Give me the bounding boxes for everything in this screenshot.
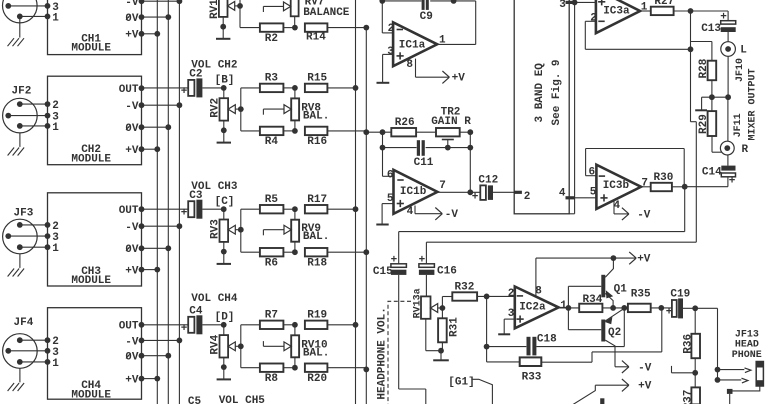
svg-text:IC1a: IC1a [399, 39, 426, 51]
svg-text:5: 5 [590, 187, 597, 199]
svg-text:R: R [742, 144, 749, 156]
svg-text:R5: R5 [265, 194, 279, 206]
svg-text:BAL.: BAL. [303, 231, 329, 243]
svg-text:OUT: OUT [119, 321, 139, 333]
svg-text:R3: R3 [265, 73, 279, 85]
svg-text:-V: -V [125, 336, 139, 348]
svg-text:OUT: OUT [119, 84, 139, 96]
svg-text:+V: +V [125, 30, 139, 42]
svg-text:R6: R6 [265, 257, 278, 269]
svg-text:R33: R33 [522, 372, 542, 384]
svg-text:+: + [720, 11, 727, 23]
svg-text:3: 3 [559, 0, 566, 11]
svg-text:+: + [181, 323, 188, 335]
svg-text:BAL.: BAL. [303, 111, 329, 123]
svg-text:MODULE: MODULE [71, 389, 111, 401]
svg-text:-V: -V [445, 209, 459, 221]
svg-text:1: 1 [52, 12, 59, 24]
svg-text:MIXER OUTPUT: MIXER OUTPUT [747, 68, 758, 140]
svg-text:IC3b: IC3b [603, 180, 630, 192]
svg-text:MODULE: MODULE [71, 153, 111, 165]
svg-text:-V: -V [637, 209, 651, 221]
svg-text:JF4: JF4 [14, 317, 34, 329]
svg-text:-V: -V [125, 101, 139, 113]
svg-text:IC1b: IC1b [400, 186, 427, 198]
svg-text:BALANCE: BALANCE [303, 7, 350, 19]
svg-text:R4: R4 [265, 136, 279, 148]
svg-text:R35: R35 [631, 288, 651, 300]
svg-text:RV3: RV3 [210, 219, 222, 239]
svg-text:-V: -V [638, 362, 652, 374]
svg-text:6: 6 [387, 169, 394, 181]
svg-text:3: 3 [508, 308, 515, 320]
svg-text:JF10: JF10 [735, 58, 746, 82]
svg-text:C9: C9 [420, 11, 433, 23]
svg-text:MODULE: MODULE [71, 275, 111, 287]
svg-text:HEADPHONE VOL.: HEADPHONE VOL. [377, 307, 389, 399]
svg-text:R37: R37 [682, 390, 694, 404]
svg-text:[C]: [C] [215, 196, 235, 208]
svg-text:R18: R18 [307, 257, 327, 269]
svg-text:R8: R8 [265, 373, 279, 385]
svg-text:1: 1 [52, 243, 59, 255]
svg-text:C13: C13 [701, 23, 721, 35]
svg-text:JF3: JF3 [14, 207, 34, 219]
svg-text:+V: +V [125, 266, 139, 278]
svg-text:MODULE: MODULE [71, 42, 111, 54]
svg-text:R19: R19 [307, 309, 327, 321]
svg-text:R27: R27 [654, 0, 674, 8]
svg-text:R7: R7 [265, 309, 278, 321]
svg-text:[B]: [B] [215, 75, 235, 87]
svg-text:+V: +V [637, 254, 651, 266]
svg-text:R14: R14 [306, 32, 326, 44]
svg-text:JF11: JF11 [733, 113, 744, 137]
svg-text:1: 1 [52, 122, 59, 134]
svg-text:+: + [666, 307, 673, 319]
svg-text:C18: C18 [537, 334, 557, 346]
svg-text:R30: R30 [654, 172, 674, 184]
svg-text:7: 7 [641, 178, 648, 190]
svg-text:+V: +V [125, 375, 139, 387]
svg-text:C12: C12 [478, 174, 498, 186]
svg-text:See Fig. 9: See Fig. 9 [551, 59, 563, 125]
svg-text:-V: -V [125, 222, 139, 234]
svg-text:C15: C15 [373, 266, 393, 278]
svg-text:R32: R32 [455, 282, 475, 294]
svg-text:+: + [181, 207, 188, 219]
svg-text:2: 2 [524, 191, 531, 203]
svg-text:OUT: OUT [119, 205, 139, 217]
svg-text:R29: R29 [698, 114, 710, 134]
svg-text:R15: R15 [307, 73, 327, 85]
svg-text:[G1]: [G1] [448, 377, 474, 389]
svg-text:C11: C11 [414, 157, 434, 169]
svg-text:C16: C16 [437, 265, 457, 277]
svg-text:4: 4 [407, 206, 414, 218]
svg-text:8: 8 [406, 59, 413, 71]
svg-text:GAIN R: GAIN R [431, 116, 471, 128]
svg-text:+: + [472, 192, 479, 204]
svg-text:Q2: Q2 [608, 327, 621, 339]
svg-text:VOL CH5: VOL CH5 [219, 395, 266, 404]
svg-text:C14: C14 [702, 166, 722, 178]
svg-text:R16: R16 [307, 136, 327, 148]
svg-text:C19: C19 [670, 288, 690, 300]
svg-text:RV1: RV1 [209, 0, 221, 19]
svg-text:2: 2 [590, 12, 597, 24]
svg-text:2: 2 [52, 221, 59, 233]
svg-text:R28: R28 [698, 58, 710, 78]
svg-text:R17: R17 [307, 194, 327, 206]
svg-text:R36: R36 [682, 334, 694, 354]
svg-text:Q1: Q1 [614, 284, 628, 296]
svg-text:IC2a: IC2a [519, 302, 546, 314]
svg-text:+: + [729, 175, 736, 187]
svg-text:RV13a: RV13a [412, 288, 423, 318]
svg-text:R2: R2 [265, 33, 278, 45]
svg-text:R20: R20 [307, 373, 327, 385]
svg-text:PHONE: PHONE [732, 350, 762, 361]
svg-text:BAL.: BAL. [303, 348, 329, 360]
svg-text:+V: +V [452, 73, 466, 85]
svg-text:+: + [391, 254, 398, 266]
svg-text:7: 7 [439, 180, 446, 192]
svg-text:3: 3 [387, 46, 394, 58]
svg-text:RV4: RV4 [210, 334, 222, 354]
svg-text:+: + [419, 254, 426, 266]
svg-text:[D]: [D] [215, 311, 235, 323]
svg-text:RV2: RV2 [210, 98, 222, 118]
svg-text:R34: R34 [583, 294, 603, 306]
svg-text:-V: -V [125, 0, 139, 9]
svg-text:+V: +V [125, 145, 139, 157]
svg-text:VOL CH4: VOL CH4 [191, 293, 238, 305]
svg-text:3 BAND EQ: 3 BAND EQ [534, 63, 546, 123]
svg-text:2: 2 [508, 288, 515, 300]
svg-text:R26: R26 [395, 117, 415, 129]
svg-text:IC3a: IC3a [603, 5, 630, 17]
svg-text:2: 2 [52, 100, 59, 112]
svg-text:6: 6 [589, 167, 596, 179]
svg-text:+V: +V [638, 381, 652, 393]
svg-text:1: 1 [52, 358, 59, 370]
svg-text:+: + [181, 86, 188, 98]
svg-text:R31: R31 [448, 317, 460, 337]
svg-text:HEAD: HEAD [735, 340, 759, 351]
svg-text:L: L [740, 44, 747, 56]
svg-text:4: 4 [559, 188, 566, 200]
svg-text:C5: C5 [188, 396, 202, 404]
svg-text:JF2: JF2 [12, 86, 32, 98]
